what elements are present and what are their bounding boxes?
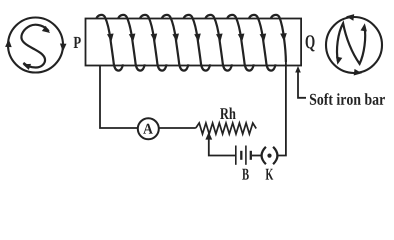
current direction arrowhead on turn 3 xyxy=(151,34,158,43)
current direction arrowhead on turn 7 xyxy=(238,34,245,43)
left pole circle (south pole view) xyxy=(8,18,63,73)
current direction arrowhead on turn 8 xyxy=(260,34,267,43)
coil turn 7 xyxy=(227,15,254,71)
label Rh xyxy=(220,108,236,119)
S top arrowhead xyxy=(42,26,50,33)
wire ammeter to rheostat xyxy=(159,127,196,129)
label B xyxy=(242,169,249,180)
coil turn 9 xyxy=(271,15,286,62)
current direction arrowhead on turn 6 xyxy=(216,34,223,43)
current direction arrowhead on turn 1 xyxy=(107,34,114,43)
soft iron bar pointer arrow xyxy=(295,66,301,73)
right pole circle (north pole view) xyxy=(326,17,382,73)
rheostat Rh zigzag xyxy=(196,123,256,134)
S current-direction glyph xyxy=(21,25,48,68)
battery B (two cells) xyxy=(235,146,237,165)
wire wiper down to battery xyxy=(209,139,236,156)
wire battery to key xyxy=(252,155,261,157)
wire from coil left end P-side down to ammeter line xyxy=(100,66,139,129)
label K xyxy=(266,169,274,180)
ammeter A xyxy=(138,118,159,139)
wire key up to coil right end Q-side xyxy=(278,60,286,156)
current direction arrowhead on turn 4 xyxy=(172,34,179,43)
coil turn 4 xyxy=(162,15,189,71)
S bottom arrowhead xyxy=(23,64,31,70)
solenoid core bar PQ xyxy=(86,19,302,66)
right circle anticlockwise arrowhead (top, left) xyxy=(346,14,354,21)
coil turn 2 xyxy=(118,15,145,71)
coil turn 8 xyxy=(249,15,276,71)
current direction arrowhead on turn 9 xyxy=(280,33,287,41)
current direction arrowhead on turn 5 xyxy=(194,34,201,43)
label Soft iron bar xyxy=(310,93,385,105)
N bottom-left arrowhead xyxy=(336,57,342,65)
label Q xyxy=(306,35,315,51)
right circle anticlockwise arrowhead (bottom, right) xyxy=(354,69,362,76)
left circle clockwise arrowhead (left side, up) xyxy=(5,39,12,47)
N current-direction glyph xyxy=(337,23,365,64)
coil turn 3 xyxy=(140,15,167,71)
coil turn 6 xyxy=(205,15,232,71)
current direction arrowhead on turn 2 xyxy=(129,34,136,43)
coil turn 5 xyxy=(183,15,210,71)
rheostat wiper arrow xyxy=(205,132,212,140)
label P xyxy=(74,37,81,48)
N top-right arrowhead xyxy=(361,23,367,31)
coil turn 1 xyxy=(96,15,123,71)
left circle clockwise arrowhead (right side, down) xyxy=(60,44,67,52)
plug key K xyxy=(262,147,266,164)
